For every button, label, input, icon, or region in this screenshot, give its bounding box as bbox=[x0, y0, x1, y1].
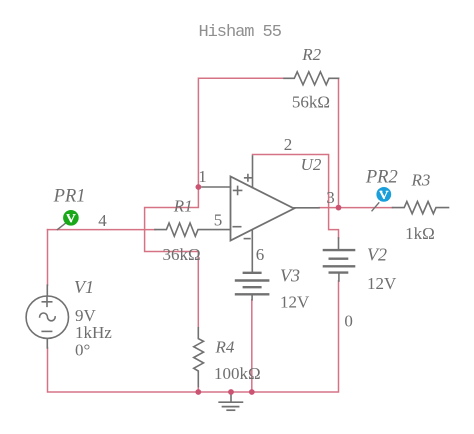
svg-text:4: 4 bbox=[98, 211, 107, 230]
svg-text:1kHz: 1kHz bbox=[75, 323, 112, 342]
svg-text:3: 3 bbox=[326, 188, 335, 207]
svg-text:0: 0 bbox=[344, 311, 353, 330]
svg-text:R2: R2 bbox=[301, 45, 321, 64]
svg-text:5: 5 bbox=[214, 210, 223, 229]
svg-text:12V: 12V bbox=[367, 274, 397, 293]
svg-text:56kΩ: 56kΩ bbox=[292, 93, 330, 112]
svg-text:36kΩ: 36kΩ bbox=[163, 245, 201, 264]
svg-text:PR2: PR2 bbox=[365, 167, 398, 187]
svg-text:U2: U2 bbox=[301, 155, 322, 174]
svg-text:R3: R3 bbox=[411, 170, 431, 189]
svg-text:12V: 12V bbox=[280, 293, 310, 312]
svg-text:R1: R1 bbox=[173, 197, 193, 216]
svg-text:100kΩ: 100kΩ bbox=[214, 364, 261, 383]
svg-text:PR1: PR1 bbox=[53, 187, 86, 207]
svg-text:0°: 0° bbox=[75, 340, 90, 359]
svg-text:V1: V1 bbox=[74, 277, 94, 297]
svg-text:1kΩ: 1kΩ bbox=[405, 224, 435, 243]
svg-text:R4: R4 bbox=[215, 338, 235, 357]
svg-text:Hisham 55: Hisham 55 bbox=[199, 23, 282, 42]
svg-text:6: 6 bbox=[256, 245, 265, 264]
svg-text:V2: V2 bbox=[367, 245, 387, 265]
svg-text:V3: V3 bbox=[280, 266, 300, 286]
svg-text:1: 1 bbox=[198, 167, 207, 186]
svg-text:2: 2 bbox=[284, 135, 293, 154]
